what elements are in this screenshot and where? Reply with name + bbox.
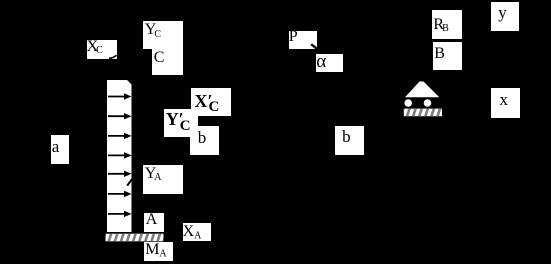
label box y [491, 2, 519, 31]
label box Y'_C (bold) [164, 109, 198, 137]
roller support triangle at B [405, 82, 439, 98]
ground hatching under roller support B [401, 108, 442, 117]
load arrow 6 [108, 191, 132, 197]
label box A [144, 213, 164, 232]
load arrow 2 [108, 113, 132, 119]
load arrow 3 [108, 133, 132, 139]
label box Y_C [143, 21, 183, 49]
label box M_A [144, 242, 173, 261]
label box X_A [183, 223, 212, 241]
label box C [152, 49, 183, 75]
label box x [491, 88, 520, 118]
roller 1 [404, 99, 412, 107]
label box b (right) [335, 126, 365, 155]
label box b (left) [190, 126, 219, 155]
label box B [433, 42, 462, 70]
curved arrow tail crossing X_C box [109, 55, 117, 58]
load arrow 4 [108, 152, 132, 158]
force P arrow shaft crossing P box corner [311, 44, 318, 49]
ground hatching under fixed support A [103, 233, 167, 242]
load arrow 1 [108, 93, 132, 99]
load arrow 7 [108, 211, 132, 217]
beam strip (distributed load body) with clipped top-right corner [107, 80, 132, 232]
short diagonal tick on strip [127, 178, 132, 185]
label box alpha [316, 54, 343, 73]
label box R_B [432, 10, 462, 39]
label box P [289, 31, 318, 49]
label box X'_C (bold) [191, 88, 231, 117]
label box a [51, 135, 69, 164]
label box Y_A [143, 165, 183, 194]
label box X_C [87, 40, 117, 59]
load arrow 5 [108, 171, 132, 177]
roller 2 [424, 99, 432, 107]
